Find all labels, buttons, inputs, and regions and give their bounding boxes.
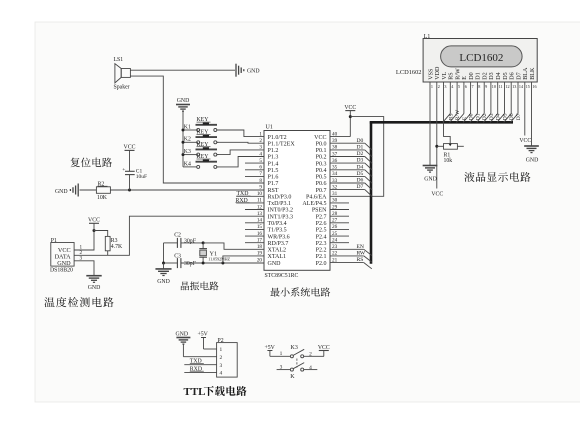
power +5V TTL [198, 332, 209, 350]
pin 26 U1 P2.5 [316, 224, 349, 233]
ground reset [55, 184, 78, 197]
svg-text:35: 35 [332, 165, 338, 171]
label crystal circuit 晶振电路 [181, 281, 219, 290]
svg-text:K1: K1 [184, 124, 191, 130]
svg-text:33: 33 [332, 178, 338, 184]
pin 35 U1 P0.4 [316, 165, 365, 174]
svg-text:D1: D1 [357, 145, 364, 151]
pin 13 LCD D6 [510, 72, 517, 89]
pin 14 LCD D7 [516, 72, 524, 89]
svg-text:D2: D2 [482, 113, 488, 120]
svg-text:10: 10 [492, 84, 496, 89]
svg-text:11.0592MHZ: 11.0592MHZ [208, 256, 230, 261]
junction VCC EA [349, 115, 352, 118]
svg-text:9: 9 [259, 184, 262, 190]
svg-text:E: E [462, 76, 468, 80]
svg-text:GND: GND [55, 189, 68, 195]
pin 40 U1 VCC [314, 131, 350, 140]
junction keys rail K3 [182, 153, 185, 156]
svg-text:23: 23 [332, 244, 338, 250]
pin 36 U1 P0.3 [316, 158, 365, 167]
svg-text:27: 27 [332, 218, 338, 224]
svg-text:29: 29 [332, 204, 338, 210]
svg-text:P0.4: P0.4 [316, 168, 327, 174]
pin 27 U1 P2.6 [316, 218, 349, 227]
pin 38 U1 P0.1 [316, 145, 365, 154]
svg-text:8: 8 [478, 84, 480, 89]
svg-text:INT1/P3.3: INT1/P3.3 [268, 214, 294, 220]
wire K4 to U1 pin4 [217, 157, 264, 167]
wire crystal left rail [163, 243, 165, 263]
svg-text:STC89C51RC: STC89C51RC [265, 273, 299, 279]
power VCC reset [124, 144, 136, 150]
svg-text:20: 20 [257, 257, 263, 263]
svg-text:D3: D3 [357, 158, 364, 164]
bus entry EN [364, 249, 372, 255]
svg-text:PSEN: PSEN [312, 208, 327, 214]
svg-text:9: 9 [485, 84, 487, 89]
wire VCC to C1 [129, 150, 131, 171]
svg-text:21: 21 [332, 257, 338, 263]
svg-text:6: 6 [465, 84, 467, 89]
bus entry LCD D2 [477, 114, 485, 123]
bus entry D2 [365, 157, 372, 164]
svg-text:4: 4 [259, 151, 262, 157]
svg-text:37: 37 [332, 151, 338, 157]
label minimum system 最小系统电路 [270, 287, 330, 296]
svg-text:P1.2: P1.2 [268, 148, 279, 154]
svg-text:18: 18 [257, 244, 263, 250]
bus entry LCD D1 [470, 114, 478, 123]
pin 4 U1 P1.3 [259, 151, 278, 160]
svg-text:VCC: VCC [519, 138, 531, 144]
wire C1 to reset node [129, 175, 131, 190]
wire LCD BLA to VCC [524, 89, 526, 136]
svg-text:XTAL2: XTAL2 [268, 248, 287, 254]
svg-text:13: 13 [512, 84, 516, 89]
power VCC 18B20 [88, 218, 100, 231]
svg-text:D0: D0 [469, 72, 475, 79]
svg-text:D4: D4 [496, 72, 502, 79]
connector P2 [217, 338, 238, 377]
pin 29 U1 PSEN [312, 204, 349, 213]
svg-text:34: 34 [332, 171, 338, 177]
svg-text:Spaker: Spaker [114, 85, 130, 91]
pin 19 U1 XTAL1 [257, 251, 286, 260]
bus entry D1 [365, 150, 372, 157]
svg-text:6: 6 [259, 165, 262, 171]
svg-text:D2: D2 [483, 72, 489, 79]
speaker LS1 [114, 57, 131, 91]
svg-text:GND: GND [176, 332, 189, 338]
svg-text:D7: D7 [516, 72, 522, 79]
svg-text:K: K [290, 374, 295, 380]
key switch K1 [183, 117, 218, 131]
svg-text:+: + [122, 167, 125, 173]
svg-text:K3: K3 [291, 345, 298, 351]
svg-text:10k: 10k [444, 158, 453, 164]
display L1 LCD1602 module [423, 34, 537, 82]
wire LCD pin 12 D5 to bus [504, 89, 506, 114]
svg-text:19: 19 [257, 251, 263, 257]
svg-text:GND: GND [247, 68, 260, 74]
capacitor C2 [164, 232, 197, 248]
svg-text:32: 32 [332, 184, 338, 190]
svg-text:P0.1: P0.1 [316, 148, 327, 154]
svg-text:RS: RS [449, 72, 455, 80]
wire keys ground rail [182, 111, 184, 167]
pin 30 U1 ALE/P4.5 [302, 198, 349, 207]
pin 32 U1 P0.7 [316, 184, 365, 193]
capacitor C3 [164, 254, 197, 269]
pin 21 U1 P2.0 [316, 257, 364, 266]
svg-text:7: 7 [472, 84, 474, 89]
svg-text:26: 26 [332, 224, 338, 230]
svg-text:1: 1 [431, 84, 433, 89]
bus entry LCD D4 [490, 114, 498, 123]
wire P1 pin1 to VCC [74, 231, 94, 251]
pin 28 U1 P2.7 [316, 211, 349, 220]
net label RXD TTL [190, 366, 204, 372]
svg-text:RxD/P3.0: RxD/P3.0 [268, 195, 292, 201]
ground keys [176, 98, 190, 111]
pin 39 U1 P0.0 [316, 138, 365, 147]
svg-text:T0/P3.4: T0/P3.4 [268, 221, 287, 227]
svg-text:WR/P3.6: WR/P3.6 [268, 234, 290, 240]
svg-text:P1.1/T2EX: P1.1/T2EX [268, 141, 296, 147]
svg-text:D4: D4 [357, 164, 364, 170]
pin 12 LCD D5 [503, 72, 510, 89]
svg-text:3: 3 [280, 365, 283, 371]
svg-text:P2.7: P2.7 [316, 214, 327, 220]
pin 22 U1 P2.1 [316, 251, 364, 260]
wire TXD to P2 pin3 [184, 364, 216, 366]
wire R3 to DATA [107, 251, 109, 256]
svg-text:P0.0: P0.0 [316, 141, 327, 147]
svg-text:VL: VL [442, 71, 448, 79]
wire LCD BLK to ground [531, 89, 533, 147]
wire EA to VCC [330, 117, 384, 197]
pin 10 LCD D3 [489, 72, 496, 89]
svg-text:P2.2: P2.2 [316, 248, 327, 254]
wire K1 to U1 pin1 [217, 130, 264, 137]
svg-text:RD/P3.7: RD/P3.7 [268, 241, 289, 247]
wire LCD VDD to VCC [436, 89, 438, 189]
wire K2 to U1 pin2 [217, 141, 264, 144]
pin 1 LCD VSS [428, 68, 434, 89]
svg-text:P2.0: P2.0 [316, 261, 327, 267]
wire P1 pin3 to ground [74, 261, 94, 276]
pin 18 U1 XTAL2 [257, 244, 286, 253]
svg-text:+5V: +5V [198, 332, 209, 338]
svg-text:D6: D6 [509, 113, 515, 120]
svg-text:4: 4 [220, 371, 223, 377]
pin 7 LCD D0 [469, 72, 475, 89]
svg-text:25: 25 [332, 231, 338, 237]
pin 23 U1 P2.2 [316, 244, 364, 253]
junction crystal bottom [202, 262, 205, 265]
svg-text:P2.3: P2.3 [316, 241, 327, 247]
wire LCD pin 9 D2 to bus [483, 89, 485, 114]
bus horizontal to LCD [370, 121, 513, 124]
resistor R2 [96, 181, 110, 201]
svg-text:4.7K: 4.7K [111, 244, 123, 250]
pin 6 LCD E [462, 76, 468, 89]
wire LCD pin 4 RS to bus [449, 89, 451, 114]
key switch K2 [183, 130, 218, 144]
svg-text:GND: GND [424, 177, 437, 183]
pin 8 LCD D1 [476, 72, 482, 89]
wire LCD pin 5 R/W to bus [456, 89, 458, 114]
svg-text:P1.0/T2: P1.0/T2 [268, 135, 287, 141]
svg-text:RS: RS [448, 113, 454, 120]
crystal Y1 [199, 243, 230, 263]
ground TTL [176, 332, 191, 357]
svg-text:VCC: VCC [124, 144, 136, 150]
resistor R3 [105, 236, 123, 250]
pin 2 U1 P1.1/T2EX [259, 138, 295, 147]
svg-text:INT0/P3.2: INT0/P3.2 [268, 208, 294, 214]
svg-text:15: 15 [526, 84, 530, 89]
label temperature circuit 温度检测电路 [44, 297, 113, 307]
svg-text:3: 3 [444, 84, 446, 89]
wire +5V to P2 pin1 [204, 348, 217, 350]
svg-text:11: 11 [499, 84, 503, 89]
label TTL download circuit TTL下载电路 [184, 386, 247, 398]
pin 11 LCD D4 [496, 72, 503, 89]
svg-text:D5: D5 [357, 171, 364, 177]
svg-text:10K: 10K [97, 195, 108, 201]
pin 12 U1 INT0/P3.2 [245, 204, 293, 213]
svg-text:22: 22 [332, 251, 338, 257]
wire LCD VSS to ground [429, 89, 431, 166]
wire XTAL2 node to U1 pin18 [203, 243, 264, 249]
svg-text:24: 24 [332, 238, 338, 244]
key switch K3 [183, 142, 218, 156]
svg-text:P0.2: P0.2 [316, 155, 327, 161]
wire LCD pin 6 E to bus [463, 89, 465, 114]
bus entry LCD E [456, 114, 464, 123]
pin 13 U1 INT1/P3.3 [257, 211, 293, 220]
svg-text:P2.5: P2.5 [316, 228, 327, 234]
svg-text:VDD: VDD [435, 66, 441, 80]
wire R2 to U1 pin9 RST [110, 189, 264, 191]
svg-text:30pF: 30pF [184, 261, 197, 267]
pin 31 U1 P4.6/EA [306, 191, 338, 200]
svg-text:TTL: TTL [184, 386, 206, 398]
svg-text:P1.4: P1.4 [268, 161, 279, 167]
svg-text:VSS: VSS [428, 68, 434, 80]
pin 3 LCD VL [442, 71, 448, 89]
pin 5 LCD R/W [455, 68, 461, 89]
wire GND to R2 [80, 189, 97, 191]
svg-text:D3: D3 [489, 72, 495, 79]
wire K3 to U1 pin3 [217, 150, 264, 155]
pin 37 U1 P0.2 [316, 151, 365, 160]
svg-text:R/W: R/W [455, 68, 461, 80]
svg-text:1: 1 [259, 131, 262, 137]
pin 2 LCD VDD [435, 66, 441, 89]
svg-text:P0.7: P0.7 [316, 188, 327, 194]
bus entry LCD D0 [463, 114, 471, 123]
svg-text:13: 13 [257, 211, 263, 217]
svg-text:D5: D5 [503, 72, 509, 79]
svg-text:T1/P3.5: T1/P3.5 [268, 228, 287, 234]
bus entry D7 [365, 190, 372, 197]
svg-text:K2: K2 [184, 137, 191, 143]
svg-text:11: 11 [257, 198, 262, 204]
pin 24 U1 P2.3 [316, 238, 349, 247]
svg-text:14: 14 [257, 218, 263, 224]
switch K3 [270, 345, 324, 380]
svg-text:RS: RS [357, 257, 364, 263]
svg-text:P1.5: P1.5 [268, 168, 279, 174]
svg-text:VCC: VCC [88, 218, 100, 224]
svg-text:D5: D5 [503, 113, 509, 120]
svg-text:12: 12 [505, 84, 509, 89]
op-amp U1 MCU STC89C51RC body [264, 125, 330, 279]
junction crystal ground [162, 262, 165, 265]
junction R1 wiper node [435, 145, 438, 148]
bus entry RS [364, 263, 372, 269]
pin 20 U1 GND [257, 257, 281, 266]
wire C2 to XTAL2 node [181, 242, 203, 244]
connector P1 DS18B20 [50, 238, 74, 274]
bus entry RW [364, 256, 372, 262]
pin 33 U1 P0.6 [316, 178, 365, 187]
svg-text:EN: EN [357, 244, 364, 250]
ground BLK [524, 146, 539, 164]
svg-text:GND: GND [177, 98, 190, 104]
svg-text:BLK: BLK [530, 67, 536, 80]
svg-text:30pF: 30pF [184, 239, 197, 245]
pin 15 LCD BLA [523, 67, 530, 89]
svg-text:TxD/P3.1: TxD/P3.1 [268, 201, 292, 207]
pin 16 U1 WR/P3.6 [245, 231, 290, 240]
svg-text:5: 5 [458, 84, 460, 89]
svg-text:8: 8 [259, 178, 262, 184]
svg-text:GND: GND [268, 261, 282, 267]
net label TXD [237, 191, 251, 197]
bus entry LCD R/W [450, 114, 458, 123]
svg-text:P4.6/EA: P4.6/EA [306, 195, 327, 201]
svg-text:D6: D6 [510, 72, 516, 79]
svg-text:16: 16 [532, 84, 536, 89]
svg-text:P0.5: P0.5 [316, 175, 327, 181]
svg-text:P1.6: P1.6 [268, 175, 279, 181]
pin 17 U1 RD/P3.7 [245, 238, 288, 247]
svg-text:D7: D7 [516, 113, 522, 120]
svg-text:D6: D6 [357, 178, 364, 184]
net label RXD [236, 198, 250, 204]
net label TXD TTL [190, 359, 204, 365]
svg-text:LS1: LS1 [114, 57, 124, 63]
pin 9 LCD D2 [483, 72, 489, 89]
bus entry LCD D6 [504, 114, 512, 123]
svg-text:10: 10 [257, 191, 263, 197]
svg-text:D4: D4 [496, 113, 502, 120]
pin 9 U1 RST [259, 184, 278, 193]
svg-text:17: 17 [257, 238, 263, 244]
pin 1 U1 P1.0/T2 [259, 131, 286, 140]
pin 34 U1 P0.5 [316, 171, 365, 180]
bus entry D5 [365, 176, 372, 183]
wire VCC node to R3 [94, 231, 108, 237]
ground speaker [236, 64, 260, 77]
svg-text:P2.1: P2.1 [316, 254, 327, 260]
svg-text:1: 1 [220, 347, 223, 353]
junction XTAL1 node [221, 262, 224, 265]
svg-text:VCC: VCC [344, 105, 356, 111]
power +5V K3 [265, 345, 276, 356]
svg-text:C2: C2 [174, 232, 181, 238]
pin 16 LCD BLK [530, 67, 537, 89]
svg-text:10uF: 10uF [136, 174, 147, 180]
ground LCD VSS [423, 166, 438, 183]
svg-text:P0.6: P0.6 [316, 181, 327, 187]
svg-text:GND: GND [57, 260, 71, 267]
bus entry LCD D7 [511, 114, 519, 123]
svg-text:12: 12 [257, 204, 263, 210]
svg-text:2: 2 [438, 84, 440, 89]
junction keys rail K2 [182, 141, 185, 144]
svg-text:K4: K4 [184, 161, 191, 167]
wire LCD pin 10 D3 to bus [490, 89, 492, 114]
svg-text:2: 2 [220, 355, 223, 361]
svg-text:GND: GND [157, 279, 170, 285]
svg-text:D2: D2 [357, 151, 364, 157]
pin 14 U1 T0/P3.4 [245, 218, 287, 227]
svg-text:P2.6: P2.6 [316, 221, 327, 227]
pin 3 U1 P1.2 [259, 145, 278, 154]
pin 8 U1 P1.7 [259, 178, 278, 187]
svg-text:16: 16 [257, 231, 263, 237]
ground 18B20 [86, 276, 101, 291]
wire LCD pin 14 D7 to bus [517, 89, 519, 114]
bus vertical P0 [370, 121, 373, 264]
power VCC K3 [318, 345, 330, 356]
wire XTAL1 node to U1 pin19 [223, 256, 264, 263]
wire LCD pin 11 D4 to bus [497, 89, 499, 114]
svg-text:15: 15 [257, 224, 263, 230]
bus entry D3 [365, 163, 372, 170]
bus entry LCD RS [443, 114, 451, 123]
svg-text:D3: D3 [489, 113, 495, 120]
svg-text:D7: D7 [357, 184, 364, 190]
wire LCD pin 13 D6 to bus [510, 89, 512, 114]
junction VCC node 18B20 [93, 229, 96, 232]
svg-text:VCC: VCC [431, 192, 443, 198]
svg-text:40: 40 [332, 131, 338, 137]
junction XTAL2 node [202, 241, 205, 244]
pin 10 U1 RxD/P3.0 [236, 191, 291, 200]
wire RXD to P2 pin4 [184, 371, 216, 373]
pin 6 U1 P1.5 [245, 165, 278, 174]
junction reset node [128, 189, 131, 192]
bus entry LCD D5 [497, 114, 505, 123]
svg-text:28: 28 [332, 211, 338, 217]
svg-text:38: 38 [332, 145, 338, 151]
svg-text:U1: U1 [266, 125, 273, 131]
svg-text:K3: K3 [184, 149, 191, 155]
wire LCD VL to R1 [444, 89, 451, 144]
wire speaker bottom to U1 pin8 [130, 76, 264, 183]
pin 4 LCD RS [449, 72, 455, 89]
svg-text:VCC: VCC [314, 135, 326, 141]
wire LCD pin 8 D1 to bus [476, 89, 478, 114]
svg-text:P1.7: P1.7 [268, 181, 279, 187]
pin 25 U1 P2.4 [316, 231, 349, 240]
